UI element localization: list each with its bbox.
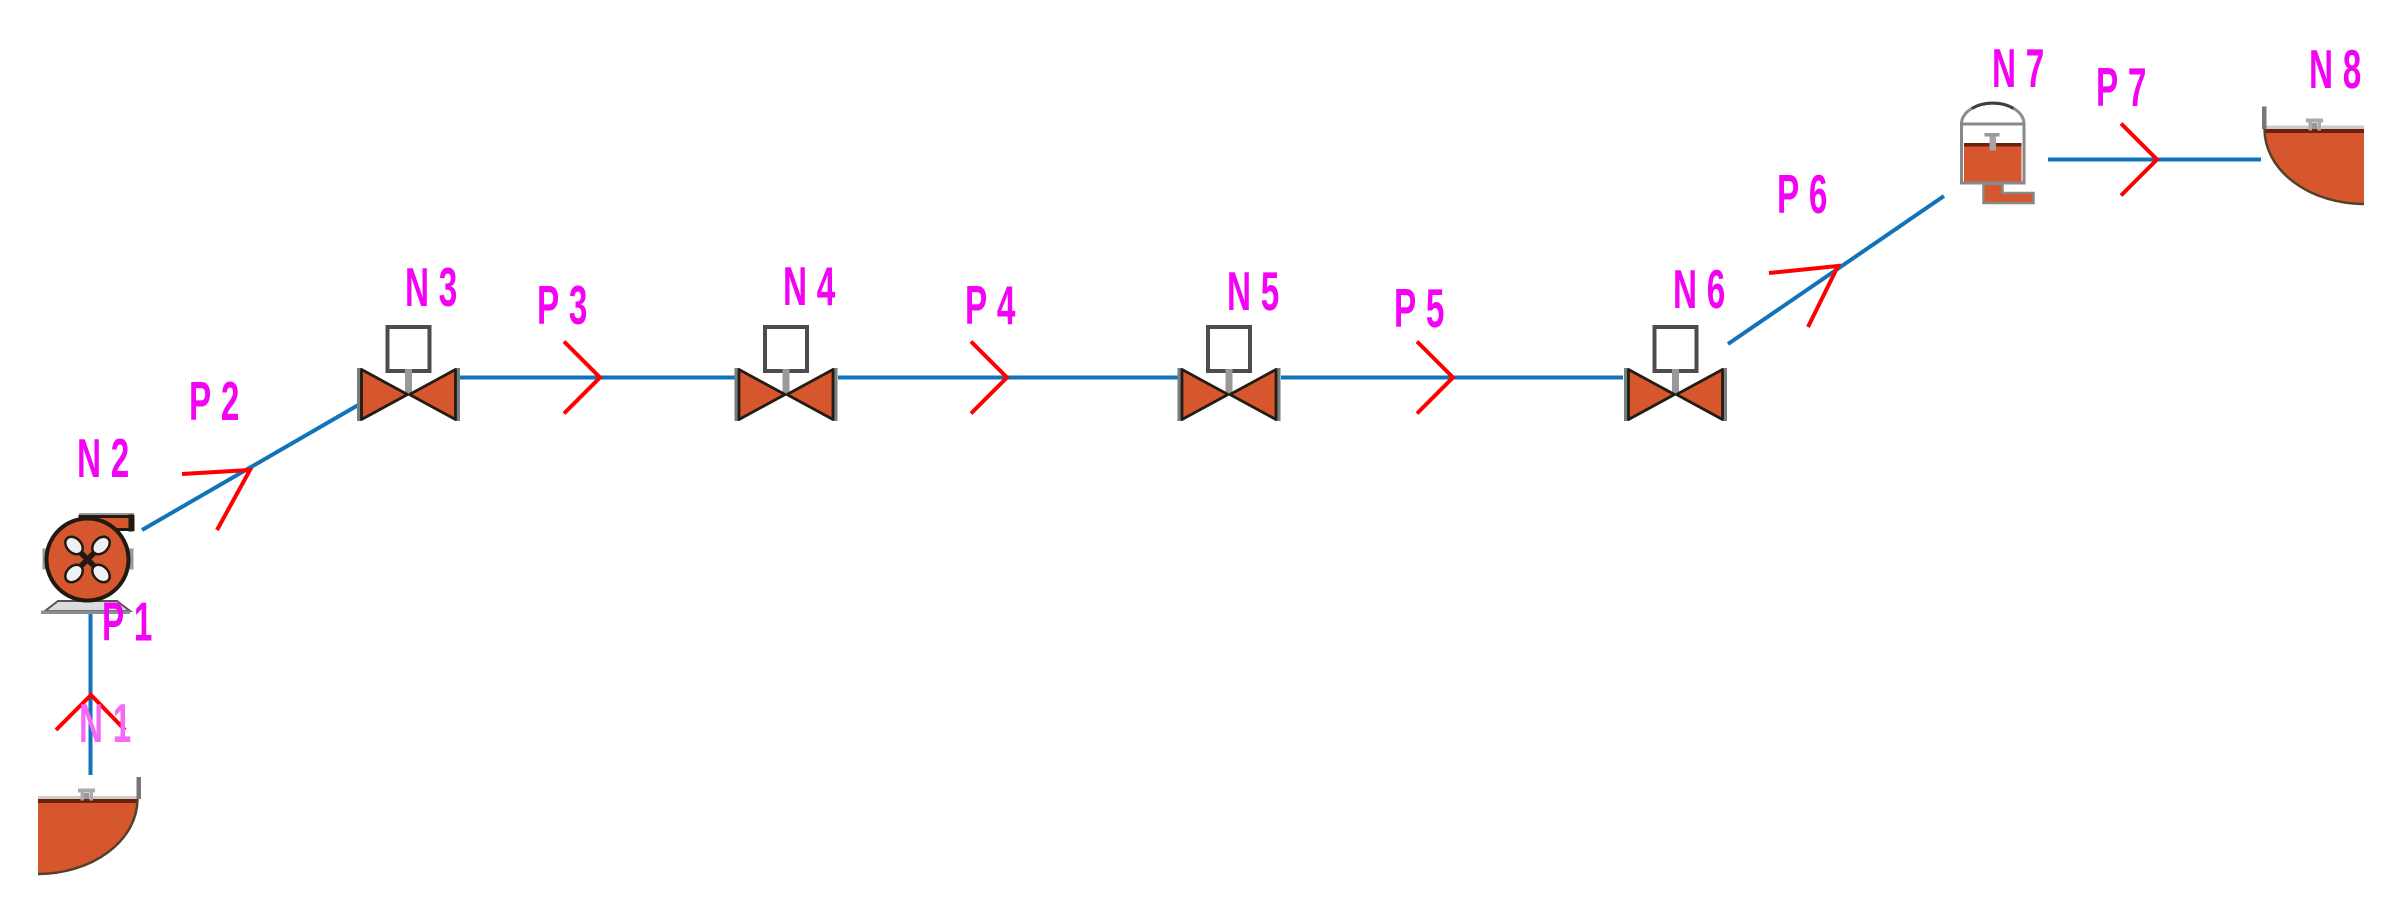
pipe P1 [89, 613, 93, 775]
label N6 [1673, 258, 1735, 320]
label N2 [77, 427, 139, 489]
reservoir N8 [2262, 107, 2364, 205]
valve N5 [1178, 327, 1281, 421]
label P7 [2096, 56, 2156, 118]
svg-text:N7: N7 [1992, 37, 2054, 99]
flow arrow P5 [1417, 342, 1453, 414]
flow arrow P6 [1769, 266, 1838, 327]
svg-text:P1: P1 [102, 591, 162, 653]
svg-text:P5: P5 [1394, 277, 1454, 339]
label N7 [1992, 37, 2054, 99]
svg-text:N3: N3 [405, 256, 467, 318]
svg-text:N1: N1 [79, 692, 141, 754]
label P1 [102, 591, 162, 653]
tank N7 [1962, 103, 2034, 203]
svg-text:N6: N6 [1673, 258, 1735, 320]
svg-text:N8: N8 [2309, 38, 2371, 100]
pipe P3 [458, 376, 736, 380]
flow arrow P1 [56, 695, 125, 730]
flow arrow P2 [182, 470, 250, 530]
label P2 [189, 370, 249, 432]
pipe P5 [1281, 376, 1623, 380]
label N3 [405, 256, 467, 318]
svg-text:N5: N5 [1227, 260, 1289, 322]
svg-text:P6: P6 [1777, 163, 1837, 225]
label P5 [1394, 277, 1454, 339]
label N5 [1227, 260, 1289, 322]
valve N6 [1624, 327, 1727, 421]
label N1 [79, 692, 141, 754]
pipe P2 [142, 404, 360, 530]
svg-text:P4: P4 [965, 274, 1025, 336]
valve N4 [735, 327, 838, 421]
flow arrow P4 [971, 342, 1007, 414]
svg-text:P7: P7 [2096, 56, 2156, 118]
flow arrow P7 [2121, 124, 2157, 196]
pump N2 [41, 513, 134, 614]
svg-text:N4: N4 [783, 255, 845, 317]
label P3 [537, 274, 597, 336]
svg-text:P3: P3 [537, 274, 597, 336]
label P6 [1777, 163, 1837, 225]
pipe P6 [1728, 196, 1944, 344]
valve N3 [357, 327, 460, 421]
svg-text:N2: N2 [77, 427, 139, 489]
label P4 [965, 274, 1025, 336]
label N4 [783, 255, 845, 317]
label N8 [2309, 38, 2371, 100]
flow arrow P3 [564, 342, 600, 414]
pipe P4 [838, 376, 1178, 380]
reservoir N1 [38, 777, 141, 874]
svg-text:P2: P2 [189, 370, 249, 432]
pipe P7 [2048, 158, 2261, 162]
